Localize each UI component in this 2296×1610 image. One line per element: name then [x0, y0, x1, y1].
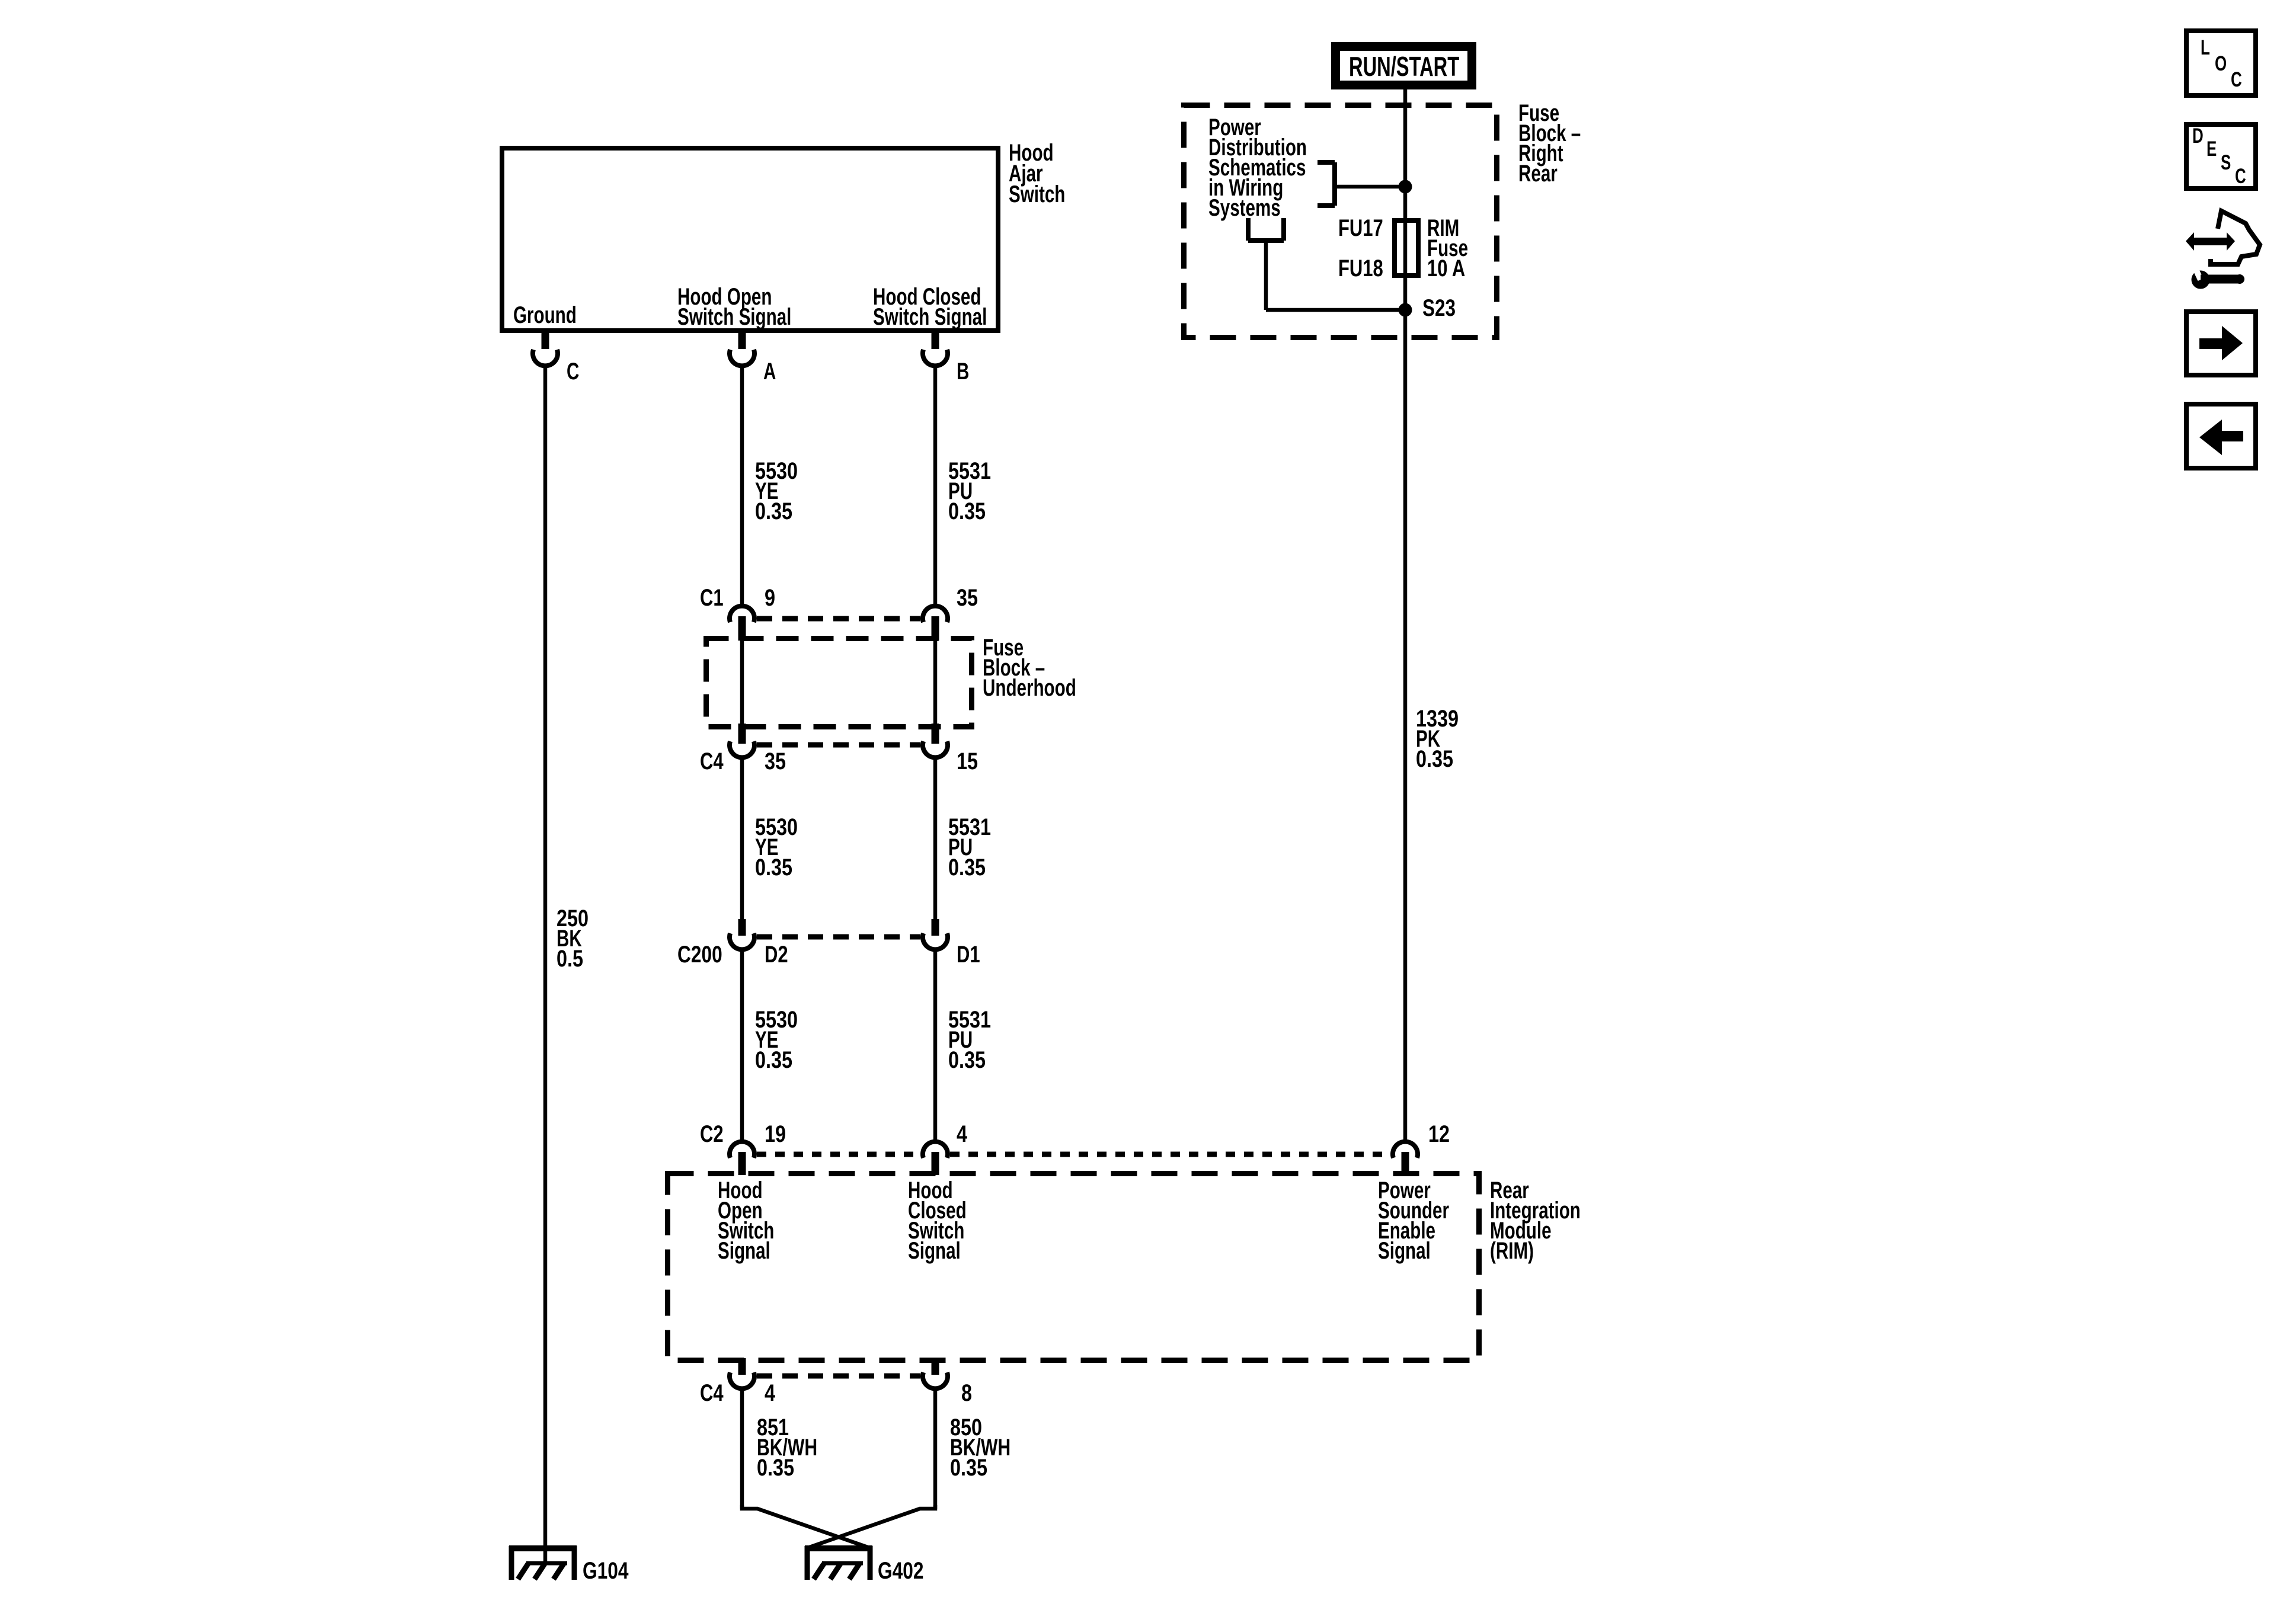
svg-text:C2: C2	[700, 1121, 724, 1147]
svg-text:B: B	[957, 359, 969, 385]
svg-text:0.35: 0.35	[757, 1454, 794, 1481]
svg-text:A: A	[763, 359, 776, 385]
svg-text:L: L	[2201, 36, 2210, 59]
svg-text:S: S	[2221, 151, 2231, 174]
svg-text:0.35: 0.35	[1416, 745, 1453, 772]
svg-text:19: 19	[765, 1121, 786, 1147]
svg-text:FU18: FU18	[1338, 255, 1383, 281]
svg-text:RUN/START: RUN/START	[1349, 52, 1459, 82]
svg-text:D2: D2	[765, 941, 788, 968]
svg-text:(RIM): (RIM)	[1490, 1238, 1534, 1264]
svg-text:C: C	[567, 359, 579, 385]
svg-text:Signal: Signal	[718, 1238, 770, 1264]
svg-text:D: D	[2192, 124, 2204, 148]
svg-text:D1: D1	[957, 941, 980, 968]
svg-text:0.35: 0.35	[755, 854, 792, 881]
svg-text:9: 9	[765, 584, 775, 611]
svg-text:Switch Signal: Switch Signal	[873, 304, 987, 330]
svg-text:8: 8	[961, 1379, 972, 1406]
svg-text:C4: C4	[700, 748, 724, 774]
svg-text:C4: C4	[700, 1379, 724, 1406]
svg-text:4: 4	[765, 1379, 776, 1406]
svg-text:0.5: 0.5	[557, 945, 583, 972]
svg-text:C1: C1	[700, 584, 724, 611]
svg-text:0.35: 0.35	[948, 1046, 986, 1073]
svg-text:12: 12	[1428, 1121, 1450, 1147]
svg-text:E: E	[2207, 137, 2217, 161]
svg-text:0.35: 0.35	[950, 1454, 987, 1481]
svg-text:4: 4	[957, 1121, 968, 1147]
svg-text:G104: G104	[583, 1557, 629, 1583]
svg-text:10 A: 10 A	[1427, 255, 1465, 281]
svg-text:Signal: Signal	[908, 1238, 961, 1264]
svg-text:Rear: Rear	[1518, 161, 1558, 187]
svg-text:Ground: Ground	[513, 302, 577, 328]
svg-text:15: 15	[957, 748, 978, 774]
svg-text:G402: G402	[878, 1557, 924, 1583]
svg-text:Systems: Systems	[1208, 195, 1281, 221]
svg-text:O: O	[2215, 52, 2227, 75]
svg-text:Signal: Signal	[1378, 1238, 1431, 1264]
svg-text:35: 35	[957, 584, 978, 611]
svg-text:0.35: 0.35	[755, 498, 792, 524]
svg-text:C: C	[2235, 164, 2246, 188]
svg-text:0.35: 0.35	[755, 1046, 792, 1073]
svg-text:Switch Signal: Switch Signal	[677, 304, 791, 330]
svg-text:0.35: 0.35	[948, 498, 986, 524]
svg-text:C200: C200	[677, 940, 722, 967]
svg-text:Underhood: Underhood	[983, 675, 1076, 701]
svg-text:S23: S23	[1422, 294, 1456, 321]
svg-text:35: 35	[765, 748, 786, 774]
svg-text:0.35: 0.35	[948, 854, 986, 881]
svg-text:C: C	[2231, 68, 2242, 91]
svg-text:Switch: Switch	[1009, 181, 1065, 207]
svg-text:FU17: FU17	[1338, 215, 1383, 241]
